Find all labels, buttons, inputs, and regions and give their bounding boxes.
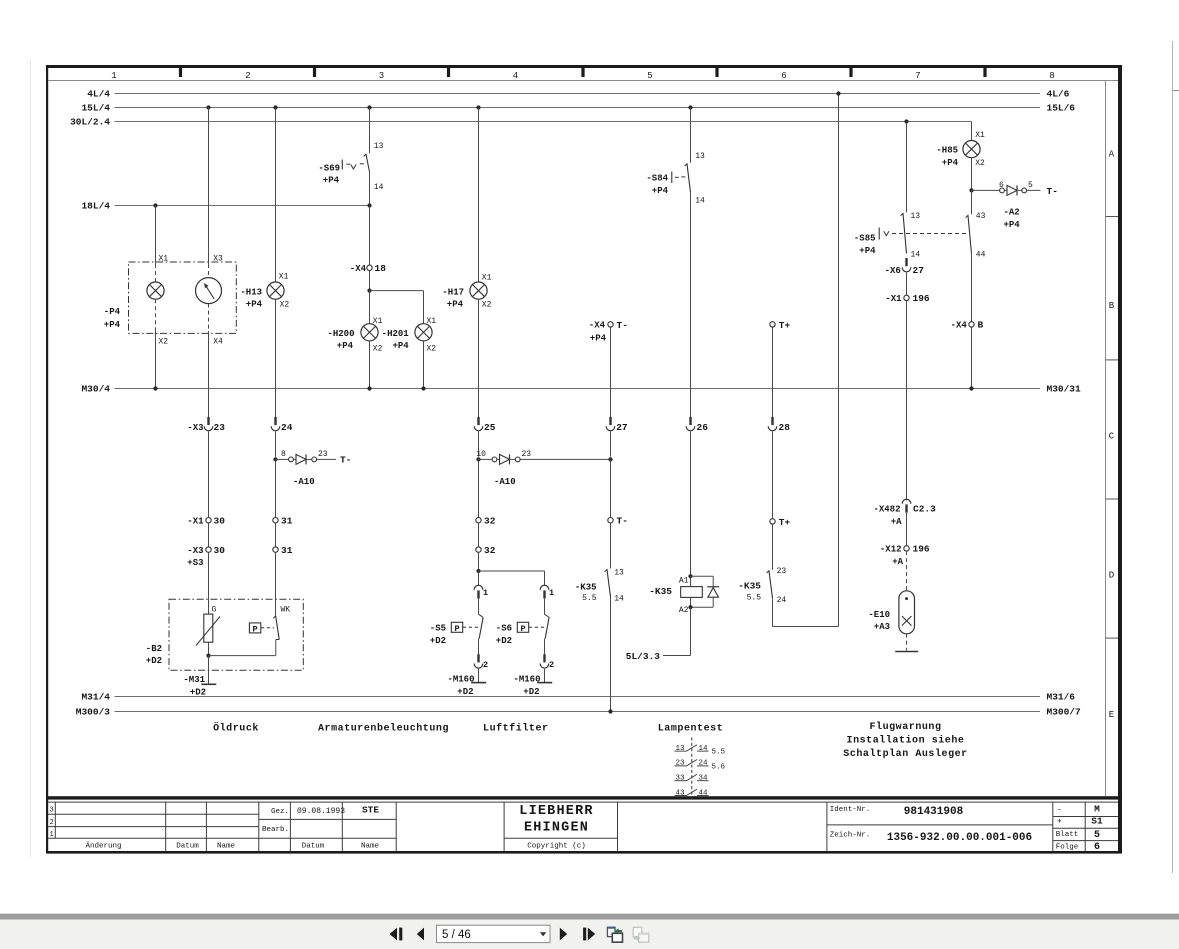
link P to WK: [261, 627, 274, 629]
enclosure box -P4 +P4: [129, 262, 237, 333]
connector -X6 pin 27: [902, 258, 911, 272]
connector pin 28: [768, 417, 777, 431]
svg-text:Änderung: Änderung: [85, 841, 121, 850]
svg-text:EHINGEN: EHINGEN: [524, 821, 589, 836]
svg-text:24: 24: [777, 596, 787, 605]
wire WK lead: [275, 552, 277, 615]
svg-text:6: 6: [999, 181, 1004, 190]
svg-text:A: A: [1109, 150, 1115, 160]
connector -X12 pin 196: [904, 546, 909, 551]
svg-text:Armaturenbeleuchtung: Armaturenbeleuchtung: [318, 723, 449, 735]
svg-text:S1: S1: [1091, 816, 1103, 827]
title block line v name2|gap: [395, 802, 397, 851]
wire -S6 middle: [544, 599, 546, 614]
connector pin 32 upper: [476, 518, 481, 523]
contact -K35 23/24 blade: [767, 570, 773, 598]
svg-text:+P4: +P4: [104, 320, 121, 330]
link P to blade -S6: [529, 626, 546, 628]
node 15L/4 to gauge: [206, 105, 210, 109]
svg-text:1356-932.00.00.001-006: 1356-932.00.00.001-006: [887, 832, 1032, 844]
node -H200/-H201 branch: [367, 289, 371, 293]
wire -H13 below 24: [275, 432, 277, 457]
svg-text:X1: X1: [279, 273, 289, 282]
wire 24 down and right: [772, 598, 774, 626]
wire -S5 lower: [478, 639, 480, 655]
svg-text:M31/6: M31/6: [1047, 692, 1076, 703]
svg-text:-X1: -X1: [187, 516, 204, 526]
wire T+ down: [772, 327, 774, 417]
page left edge: [30, 60, 32, 857]
svg-text:+P4: +P4: [590, 333, 607, 343]
svg-text:8: 8: [1049, 71, 1054, 81]
svg-text:-A10: -A10: [293, 477, 315, 487]
wire -S6 to chassis: [544, 669, 546, 683]
title block line v left|gez: [258, 802, 260, 851]
diode -A2: [972, 185, 1041, 195]
svg-text:-X3: -X3: [187, 546, 203, 556]
ruler tick 7|8: [983, 68, 986, 77]
wire T+ to contact: [772, 524, 774, 570]
svg-text:-B2: -B2: [146, 644, 162, 654]
node riser to 4L/4: [836, 91, 840, 95]
svg-text:Name: Name: [217, 842, 235, 850]
column ruler line: [48, 80, 1118, 82]
svg-text:13: 13: [695, 152, 705, 161]
svg-text:M31/4: M31/4: [81, 692, 110, 703]
row letter column line: [1105, 81, 1107, 797]
svg-text:X1: X1: [975, 131, 985, 140]
switch -S5 blade: [479, 614, 484, 617]
switch WK blade: [273, 616, 279, 640]
lamp -H200: [361, 324, 378, 341]
frame top border: [46, 65, 1122, 68]
connector T+ lower: [770, 519, 775, 524]
svg-text:28: 28: [779, 422, 791, 433]
wire -P4 lamp lower: [155, 331, 157, 389]
svg-text:3: 3: [50, 807, 54, 815]
svg-text:+D2: +D2: [146, 656, 162, 666]
bus wire 18L/4: [115, 205, 370, 207]
svg-text:+P4: +P4: [392, 341, 409, 351]
frame left border: [46, 65, 48, 854]
title block line v subtable mid: [1084, 802, 1086, 851]
ruler tick 3|4: [447, 68, 450, 77]
node -H85 wire to M30/31: [969, 386, 973, 390]
svg-text:-K35: -K35: [575, 583, 597, 593]
row divider tick: [1106, 498, 1119, 500]
node -H201 to M30/4: [421, 386, 425, 390]
svg-text:+D2: +D2: [496, 636, 512, 646]
title block top line: [48, 801, 1118, 803]
svg-text:+D2: +D2: [190, 688, 206, 698]
svg-text:Folge: Folge: [1056, 843, 1079, 851]
title block line v rev num col: [54, 802, 56, 838]
svg-text:31: 31: [281, 515, 293, 526]
connector -X4 T- tap: [608, 322, 613, 327]
title block line v gap|liebherr: [503, 802, 505, 851]
svg-text:14: 14: [614, 594, 624, 603]
svg-text:+P4: +P4: [652, 186, 669, 196]
svg-text:-S69: -S69: [318, 163, 340, 173]
svg-text:30L/2.4: 30L/2.4: [70, 117, 110, 128]
svg-text:5 / 46: 5 / 46: [442, 929, 471, 941]
svg-text:+P4: +P4: [323, 175, 340, 185]
svg-text:13: 13: [614, 568, 624, 577]
wire gauge dashed lower: [208, 304, 210, 331]
bus wire 30L/2.4: [115, 121, 972, 123]
svg-text:Datum: Datum: [176, 842, 199, 850]
wire 26 to A1: [690, 432, 692, 577]
wire branch to -H200: [369, 291, 371, 324]
svg-text:30: 30: [214, 545, 226, 556]
subtable line 3: [1053, 840, 1118, 842]
svg-text:X2: X2: [427, 345, 437, 354]
wire -H201 lower: [423, 341, 425, 389]
node -S69 to 18L/4: [367, 203, 371, 207]
svg-text:+P4: +P4: [337, 341, 354, 351]
wire 18 to branch node: [369, 271, 371, 291]
wire gauge 30-30: [208, 523, 210, 547]
title block line v gez|datum2: [289, 802, 291, 851]
wire A2 to 5L/3.3: [690, 607, 692, 655]
wire -S6 lower: [544, 639, 546, 655]
wire -P4 lamp dashed upper: [155, 264, 157, 282]
svg-text:-X4: -X4: [589, 321, 606, 331]
svg-text:+P4: +P4: [447, 300, 464, 310]
chassis bar -M31: [201, 683, 216, 685]
svg-text:2: 2: [245, 71, 250, 81]
wire -H200 lower: [369, 341, 371, 389]
wire C2.3 to -X12: [906, 513, 908, 546]
svg-text:5: 5: [647, 71, 652, 81]
svg-text:1: 1: [50, 831, 54, 839]
svg-text:Ident-Nr.: Ident-Nr.: [830, 806, 871, 814]
relay coil -K35: [681, 587, 703, 598]
title block ident/zeich divider: [827, 824, 1053, 826]
svg-text:18L/4: 18L/4: [81, 201, 110, 212]
svg-text:X2: X2: [482, 300, 492, 309]
svg-text:-X4: -X4: [951, 321, 968, 331]
button last page: [583, 928, 586, 941]
wire 25 to diode node: [478, 432, 480, 457]
title block line v liebherr|gap2: [617, 802, 619, 851]
wire -H17 upper: [478, 108, 480, 282]
wire -H85 to node: [971, 158, 973, 191]
node A1: [688, 574, 692, 578]
wire 196 down long: [906, 301, 908, 501]
wire gauge below 23: [208, 432, 210, 518]
svg-text:-S5: -S5: [430, 624, 446, 634]
svg-text:+A3: +A3: [874, 622, 890, 632]
svg-text:14: 14: [699, 745, 709, 753]
svg-text:34: 34: [699, 775, 709, 783]
link P to blade -S5: [463, 626, 480, 628]
svg-text:-H13: -H13: [240, 287, 262, 297]
wire gauge upper: [208, 108, 210, 265]
svg-text:33: 33: [675, 775, 685, 783]
svg-text:D: D: [1109, 571, 1114, 581]
svg-text:4: 4: [513, 71, 518, 81]
node sender common: [206, 654, 210, 658]
pressure symbol P of -S6: [517, 622, 528, 632]
svg-text:5.5: 5.5: [582, 594, 597, 603]
svg-text:26: 26: [697, 422, 709, 433]
wire -S5 to chassis: [478, 669, 480, 683]
svg-text:23: 23: [522, 450, 532, 459]
svg-text:-X482: -X482: [873, 505, 900, 515]
connector pin 31 upper: [273, 518, 278, 523]
wire 44 to -X4 B: [971, 253, 973, 321]
row divider tick: [1106, 216, 1119, 218]
title block line v aenderung|datum: [165, 802, 167, 851]
wire 31-31: [275, 523, 277, 547]
svg-text:WK: WK: [281, 606, 291, 615]
svg-text:T-: T-: [617, 516, 628, 527]
corner 30L/2.4 to -H85: [971, 122, 973, 141]
subtable line 1: [1053, 816, 1118, 818]
svg-text:43: 43: [976, 212, 986, 221]
svg-text:1: 1: [111, 71, 116, 81]
wire 18 lead: [369, 206, 371, 266]
connector -X3 pin 23: [204, 417, 213, 431]
wire dashed to -E10: [906, 551, 908, 591]
bus wire M300/3: [115, 711, 1041, 713]
svg-text:T-: T-: [340, 455, 351, 466]
ruler tick 4|5: [581, 68, 584, 77]
title block line v ident|subtable: [1052, 802, 1054, 851]
svg-text:31: 31: [281, 545, 293, 556]
svg-text:-K35: -K35: [649, 586, 672, 597]
page dropdown arrow: [540, 932, 547, 936]
bus wire 15L/4: [115, 107, 1041, 109]
svg-text:B: B: [978, 320, 984, 331]
svg-text:-M31: -M31: [183, 675, 205, 685]
connector pin 27: [606, 417, 615, 431]
node -H200 to M30/4: [367, 386, 371, 390]
svg-text:196: 196: [913, 544, 930, 555]
node diode -A10 tap: [273, 457, 277, 461]
svg-text:P: P: [253, 625, 258, 635]
pressure symbol P of -S5: [451, 622, 462, 632]
wire 27 to diode join: [610, 432, 612, 457]
svg-text:5: 5: [1094, 830, 1100, 841]
svg-text:-H85: -H85: [936, 146, 958, 156]
svg-text:13: 13: [675, 745, 685, 753]
svg-text:196: 196: [913, 293, 930, 304]
svg-text:1: 1: [483, 588, 488, 598]
svg-text:1: 1: [549, 588, 554, 598]
svg-text:Lampentest: Lampentest: [658, 724, 724, 735]
svg-text:4L/6: 4L/6: [1047, 89, 1070, 100]
svg-text:A2: A2: [679, 606, 689, 615]
svg-text:-M160: -M160: [513, 674, 540, 684]
svg-text:43: 43: [675, 789, 685, 797]
svg-text:09.08.1993: 09.08.1993: [297, 807, 345, 816]
bus wire 4L/4: [115, 93, 1041, 95]
frame right border: [1118, 65, 1122, 854]
wire gauge dashed upper: [208, 264, 210, 278]
connector T+ tap: [770, 322, 775, 327]
button previous page: [417, 928, 424, 941]
wire -H17 to 25: [478, 299, 480, 417]
switch -S85 blade b: [966, 215, 972, 253]
svg-text:15L/4: 15L/4: [81, 103, 110, 114]
svg-text:B: B: [1109, 301, 1115, 311]
svg-text:Gez.: Gez.: [271, 808, 289, 816]
svg-text:T-: T-: [617, 320, 628, 331]
wire -P4 lamp dashed lower: [155, 299, 157, 331]
svg-text:13: 13: [911, 212, 921, 221]
svg-text:30: 30: [214, 515, 226, 526]
wire -S85 upper: [906, 122, 908, 213]
svg-text:44: 44: [976, 251, 986, 260]
actuator of -S69: [341, 160, 343, 170]
toolbar separator bar: [0, 914, 1179, 920]
svg-text:-X12: -X12: [880, 545, 902, 555]
svg-text:5L/3.3: 5L/3.3: [626, 651, 661, 662]
svg-text:+P4: +P4: [859, 246, 876, 256]
title block header line liebherr: [504, 837, 617, 839]
svg-text:+A: +A: [891, 517, 902, 527]
title block line h 827: [48, 826, 259, 828]
bus wire M31/4: [115, 696, 1041, 698]
lamp -H17: [470, 282, 487, 299]
svg-text:+D2: +D2: [430, 636, 446, 646]
connector -X4 pin 18: [367, 265, 372, 270]
title block line v datum|name: [205, 802, 207, 851]
svg-text:-A2: -A2: [1004, 207, 1020, 217]
svg-text:M300/7: M300/7: [1047, 707, 1082, 718]
svg-text:10: 10: [476, 450, 486, 459]
bus wire M30/4: [115, 388, 1041, 390]
svg-text:X1: X1: [159, 254, 169, 263]
svg-text:Zeich-Nr.: Zeich-Nr.: [830, 831, 871, 839]
connector pin 24: [271, 417, 280, 431]
gauge instrument -P4: [196, 278, 222, 304]
node 15L/4 to -H17: [476, 105, 480, 109]
suppressor diode symbol: [707, 586, 719, 588]
svg-text:14: 14: [695, 197, 705, 206]
connector pin 1 of -S5: [474, 585, 483, 598]
wire G to node: [208, 642, 210, 655]
svg-text:6: 6: [781, 71, 786, 81]
svg-text:Copyright (c): Copyright (c): [527, 842, 586, 850]
wire dashed to ground: [906, 634, 908, 651]
wire return riser to 4L/4: [838, 94, 840, 627]
pressure switch symbol P: [249, 623, 260, 633]
connector pin 2 of -S5: [474, 654, 483, 668]
title block line v datum2|name2: [341, 802, 343, 851]
svg-text:-E10: -E10: [868, 610, 890, 620]
svg-text:T-: T-: [1047, 186, 1058, 197]
switch -S85 blade: [901, 213, 907, 253]
subtable line 2: [1053, 827, 1118, 829]
wire branch to -S6: [479, 570, 545, 572]
svg-text:X2: X2: [373, 345, 383, 354]
wire WK to common: [275, 640, 277, 656]
chassis bar -M160 of -S6: [537, 682, 552, 684]
wire sender lead: [208, 552, 210, 614]
button next page: [560, 928, 567, 941]
button next view disabled: [633, 927, 642, 936]
beacon lamp -E10: [899, 591, 915, 634]
svg-text:LIEBHERR: LIEBHERR: [519, 804, 593, 819]
lamp -H85: [963, 141, 980, 158]
svg-text:T+: T+: [779, 517, 791, 528]
svg-text:23: 23: [777, 567, 787, 576]
svg-text:X1: X1: [373, 317, 383, 326]
svg-text:-H17: -H17: [442, 287, 464, 297]
connector -X482 C2.3: [902, 499, 911, 512]
svg-text:4L/4: 4L/4: [87, 89, 110, 100]
connector T- lower: [608, 518, 613, 523]
svg-text:STE: STE: [362, 805, 379, 816]
wire 25 to 32: [478, 459, 480, 517]
svg-text:-S6: -S6: [496, 624, 512, 634]
wire -S84 to 26: [690, 192, 692, 417]
svg-text:X2: X2: [280, 300, 290, 309]
actuator of -S85: [878, 228, 880, 240]
node 15L/4 to -S84: [688, 105, 692, 109]
scrollbar thumb tick: [1173, 90, 1179, 92]
svg-text:5: 5: [1028, 181, 1033, 190]
svg-text:32: 32: [484, 515, 496, 526]
node 18L/4 to -P4 lamp: [153, 203, 157, 207]
diode -A10b: [479, 454, 611, 464]
svg-text:G: G: [212, 606, 217, 615]
wire -X6 to -X1: [906, 273, 908, 296]
svg-text:P: P: [520, 624, 525, 634]
svg-text:24: 24: [699, 760, 709, 768]
wire node to 43: [971, 190, 973, 214]
svg-text:Flugwarnung: Flugwarnung: [869, 721, 941, 733]
svg-text:+D2: +D2: [523, 687, 539, 697]
switch -S6 blade: [545, 614, 550, 617]
svg-text:2: 2: [483, 660, 488, 670]
svg-text:Datum: Datum: [302, 842, 325, 850]
svg-text:A1: A1: [679, 576, 689, 585]
svg-text:27: 27: [616, 422, 628, 433]
wire T- to -K35 contact: [610, 523, 612, 569]
mechanical link dashes: [892, 233, 968, 235]
contact table dashed link: [691, 738, 693, 800]
svg-text:X1: X1: [427, 317, 437, 326]
svg-text:Öldruck: Öldruck: [213, 722, 259, 735]
wire -P4 lamp upper: [155, 206, 157, 265]
title block line h 814: [48, 813, 259, 815]
svg-text:Blatt: Blatt: [1056, 831, 1079, 839]
svg-text:-X1: -X1: [885, 294, 902, 304]
wire -S84 upper: [690, 108, 692, 163]
svg-text:-K35: -K35: [738, 580, 761, 591]
connector pin 31 lower: [273, 547, 278, 552]
svg-text:M300/3: M300/3: [76, 707, 111, 718]
svg-text:-P4: -P4: [104, 307, 121, 317]
ground bar -E10: [895, 651, 918, 653]
connector pin 26: [686, 417, 695, 431]
chassis bar -M160 of -S5: [471, 682, 486, 684]
toolbar background: [0, 920, 1179, 949]
wire -S69 lower: [369, 172, 371, 206]
svg-text:C: C: [1109, 432, 1115, 442]
svg-text:44: 44: [699, 789, 709, 797]
node -P4 lamp to M30/4: [153, 386, 157, 390]
svg-text:-H201: -H201: [382, 329, 410, 339]
connector pin 25: [474, 417, 483, 431]
svg-text:X3: X3: [213, 254, 223, 263]
enclosure box -B2 +D2: [169, 599, 303, 670]
scrollbar track line: [1172, 41, 1174, 873]
